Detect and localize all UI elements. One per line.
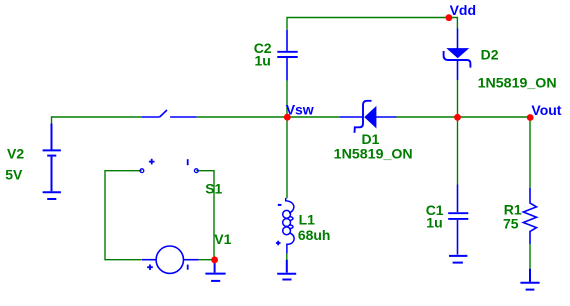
- ground under V2: [43, 192, 61, 199]
- ground under R1: [520, 269, 539, 290]
- wire L1 bottom stub: [286, 253, 288, 260]
- switch S1 control terminal +: [140, 169, 144, 173]
- svg-text:V1: V1: [214, 231, 231, 247]
- svg-text:75: 75: [503, 215, 519, 231]
- svg-text:5V: 5V: [5, 167, 23, 183]
- switch S1 plus mark: [149, 159, 155, 165]
- wire Vsw column (C2 bottom through junction to L1): [286, 80, 288, 198]
- inductor L1 plus mark: [276, 241, 281, 246]
- wire main horizontal rail Vsw: [52, 116, 531, 118]
- svg-text:Vdd: Vdd: [450, 2, 476, 18]
- inductor L1: [283, 198, 294, 254]
- svg-text:L1: L1: [299, 211, 316, 227]
- junction dot V1/ground: [211, 256, 218, 263]
- junction dot Vout: [527, 114, 534, 121]
- wire R1 bottom to ground: [529, 244, 531, 270]
- capacitor C2: [277, 30, 297, 81]
- inductor L1 minus mark: [278, 204, 282, 206]
- svg-text:68uh: 68uh: [298, 227, 331, 243]
- wire top rail C2 to Vdd: [287, 17, 457, 30]
- capacitor C1: [448, 185, 468, 255]
- V1 minus mark: [187, 265, 189, 270]
- wire S1 control loop left: [105, 171, 142, 260]
- svg-text:S1: S1: [205, 181, 222, 197]
- ground under V1: [205, 262, 225, 281]
- svg-text:1u: 1u: [426, 214, 442, 230]
- wire Vout column to R1: [529, 117, 531, 188]
- svg-text:1N5819_ON: 1N5819_ON: [478, 74, 557, 90]
- V1 plus mark: [147, 265, 153, 271]
- wire V1 to junction: [198, 259, 215, 261]
- resistor R1: [523, 188, 536, 244]
- diode D1 (Schottky, pointing left): [340, 101, 396, 133]
- diode D2 (Schottky, pointing down): [444, 29, 471, 81]
- svg-text:Vout: Vout: [531, 102, 561, 118]
- svg-text:Vsw: Vsw: [286, 101, 314, 117]
- switch S1 minus mark: [187, 159, 189, 165]
- ground under C1: [449, 256, 467, 263]
- svg-text:V2: V2: [7, 146, 24, 162]
- wire D2 bottom to C1 top: [457, 80, 459, 185]
- ground under L1: [277, 260, 296, 280]
- svg-text:D1: D1: [362, 131, 380, 147]
- svg-text:1u: 1u: [255, 53, 271, 69]
- junction dot Vdd: [446, 14, 453, 21]
- junction dot Vsw: [284, 114, 291, 121]
- switch S1 control terminal -: [194, 169, 198, 173]
- wire V2 top stub: [51, 116, 53, 124]
- svg-text:1N5819_ON: 1N5819_ON: [334, 146, 413, 162]
- wire S1 control loop right: [196, 171, 214, 260]
- voltage source V1: [142, 246, 199, 273]
- svg-text:D2: D2: [481, 47, 499, 63]
- junction dot D2/C1: [454, 114, 461, 121]
- switch S1: [142, 110, 197, 117]
- voltage source V2 battery: [43, 124, 61, 192]
